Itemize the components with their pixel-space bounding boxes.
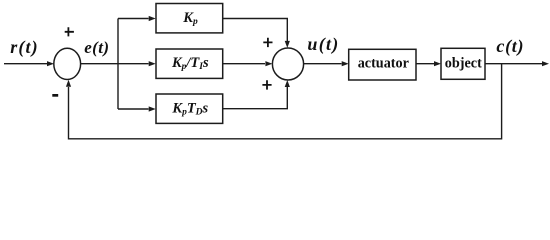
arrowhead output c(t) [542,61,549,66]
block Kp (proportional) [156,4,223,33]
svg-text:actuator: actuator [358,56,409,72]
sign + at summer 2 lower [262,80,271,89]
sign - at summer 1 bottom [52,94,58,97]
wire branch to D block [118,108,149,110]
svg-text:e(t): e(t) [84,38,109,57]
sign + at summer 2 upper [263,38,272,47]
arrowhead into I block [149,61,156,66]
wire I block to summer 2 left [223,63,265,65]
sign + at summer 1 top [65,27,74,36]
svg-text:r(t): r(t) [10,37,38,58]
svg-text:Kp/TIs: Kp/TIs [171,55,209,72]
svg-text:c(t): c(t) [496,36,524,57]
arrowhead into D block [149,106,156,111]
arrowhead into summer 2 bottom [285,80,290,87]
svg-text:KpTDs: KpTDs [171,100,208,117]
wire u(t) summer 2 to actuator [304,63,342,65]
wire e(t) from summer 1 to branch node and P block [81,63,149,65]
block Kp/TIs (integral) [156,49,223,78]
summer 1 (error summing junction) [54,48,81,79]
wire D block to summer 2 bottom [223,87,288,109]
arrowhead into object [434,61,441,66]
block object [441,48,485,79]
summer 2 (PID output summing junction) [272,48,303,80]
block KpTDs (derivative) [156,94,223,123]
arrowhead into actuator [342,61,349,66]
wire actuator to object [416,63,434,65]
wire P block to summer 2 top [223,19,288,42]
wire input r(t) [4,63,49,65]
svg-text:object: object [445,56,482,72]
arrowhead into P block [149,16,156,21]
arrowhead into summer 2 left [265,61,272,66]
block actuator [349,49,416,80]
wire feedback from c(t) node down and left to summer 1 [69,64,502,139]
arrowhead feedback into summer 1 bottom [66,80,71,87]
arrowhead into summer 1 left [47,61,54,66]
arrowhead into summer 2 top [285,41,290,48]
wire object to output c(t) [485,63,542,65]
wire branch to P block [118,18,149,20]
node branch junction [117,19,119,110]
svg-text:u(t): u(t) [307,34,339,55]
